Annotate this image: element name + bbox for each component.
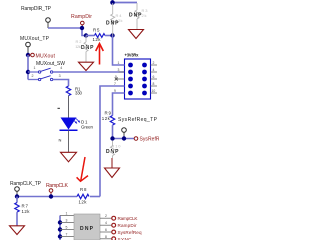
junction node RampCLK TP — [15, 194, 19, 198]
junction node box pin7 — [58, 234, 62, 238]
wire RampDir to pin1 — [113, 36, 125, 66]
resistor R7 — [15, 197, 19, 226]
LED D1 — [60, 118, 81, 131]
wire RampCLK — [17, 196, 77, 198]
svg-text:R9: R9 — [105, 111, 112, 116]
svg-text:SysRefR: SysRefR — [140, 137, 160, 143]
connector J1 pads right column — [142, 63, 147, 96]
switch SW1 pole 1 — [28, 68, 53, 73]
svg-text:2: 2 — [105, 214, 107, 218]
red arrow annotation down — [77, 157, 88, 181]
svg-text:R10: R10 — [112, 144, 122, 149]
svg-text:DNP: DNP — [80, 226, 94, 232]
ground GND3 under LED — [61, 152, 77, 162]
resistor R5 — [86, 34, 113, 38]
resistor R8 — [77, 194, 100, 198]
svg-text:MUXout: MUXout — [36, 54, 56, 60]
junction node R9 bottom — [110, 136, 114, 140]
svg-text:2: 2 — [153, 61, 155, 65]
junction node box pin5 — [58, 227, 62, 231]
power arrow annotation up — [96, 44, 104, 65]
resistor R2 DNP (grayed) — [84, 36, 88, 63]
svg-text:12k: 12k — [79, 200, 88, 205]
svg-text:10: 10 — [152, 89, 156, 93]
svg-text:3: 3 — [118, 68, 120, 72]
svg-text:DNP: DNP — [129, 13, 142, 19]
ground GND4 — [105, 168, 120, 178]
wire switch left vertical — [27, 55, 29, 80]
svg-text:RampCLK: RampCLK — [118, 216, 139, 221]
svg-text:DNP: DNP — [106, 21, 119, 27]
port circle RampDir — [81, 21, 85, 27]
resistor R9 — [110, 116, 114, 139]
svg-text:4: 4 — [153, 68, 155, 72]
DNP box component — [74, 214, 100, 240]
svg-text:N: N — [59, 138, 62, 143]
switch SW1 pole 2 — [28, 76, 53, 81]
svg-text:DNP: DNP — [106, 149, 119, 155]
pin stubs left of DNP box — [60, 216, 74, 237]
wire DNP header left vertical — [59, 216, 61, 240]
test point TP RampDIR — [46, 18, 51, 28]
svg-text:8: 8 — [153, 82, 155, 86]
port circle MUXout — [28, 53, 34, 57]
svg-text:3: 3 — [59, 74, 61, 78]
junction node switch pin1 — [26, 70, 30, 74]
resistor R10 DNP (grayed) — [111, 141, 115, 159]
wire switch pin3 to R1 — [53, 80, 69, 87]
svg-text:1: 1 — [34, 66, 36, 70]
svg-text:MUXout_TP: MUXout_TP — [20, 36, 50, 42]
svg-text:12k: 12k — [93, 37, 102, 42]
no connect circle pin2 — [112, 216, 116, 220]
svg-text:RampDir: RampDir — [118, 223, 137, 228]
junction node RampDir — [80, 26, 84, 30]
test point TP MUXout — [26, 42, 31, 55]
svg-text:5: 5 — [115, 75, 117, 79]
svg-text:Green: Green — [81, 125, 94, 130]
wire RampDIR_TP to RampDir node — [48, 28, 86, 36]
svg-text:6: 6 — [105, 228, 107, 232]
ground GND2 mid — [79, 62, 94, 70]
no connect cross pin5 — [115, 78, 118, 81]
anode mark — [58, 108, 60, 109]
svg-text:12k: 12k — [75, 44, 81, 49]
wire top horizontal — [113, 2, 138, 4]
port circle SysRefReq — [134, 137, 138, 141]
junction node R5 right — [110, 33, 114, 37]
svg-text:R7: R7 — [22, 204, 29, 209]
svg-text:12k: 12k — [22, 209, 31, 214]
junction node MUXout — [26, 53, 30, 57]
svg-text:R8: R8 — [80, 187, 87, 192]
svg-text:12k: 12k — [102, 116, 111, 121]
wire pin9 to R9 — [113, 93, 125, 116]
svg-text:SysRefReq: SysRefReq — [118, 230, 142, 235]
no connect circle pin6 — [112, 230, 116, 234]
wire MUXout_SW to header pin3 — [53, 71, 125, 73]
pin stubs left 1,3,5,7,9 — [116, 65, 125, 93]
svg-text:1: 1 — [66, 212, 68, 216]
no connect circle pin4 — [112, 223, 116, 227]
pin stubs right of DNP box — [100, 218, 112, 239]
svg-text:2k: 2k — [142, 13, 147, 18]
svg-text:2: 2 — [32, 74, 34, 78]
svg-text:RampDir: RampDir — [71, 14, 92, 20]
connector J1 body — [125, 59, 151, 99]
junction node RampCLK port — [49, 194, 53, 198]
svg-text:RampDIR_TP: RampDIR_TP — [21, 6, 52, 12]
svg-text:6: 6 — [153, 75, 155, 79]
wire top net stub — [112, 0, 114, 3]
resistor R3 DNP (grayed) — [135, 3, 139, 30]
svg-text:330: 330 — [75, 91, 83, 96]
svg-text:8: 8 — [105, 235, 107, 239]
ground GND1 top right — [129, 30, 144, 39]
pin stubs right 2,4,6,8,10 — [151, 65, 158, 93]
ground GND5 bottom left — [10, 226, 25, 235]
svg-text:RampCLK_TP: RampCLK_TP — [10, 181, 42, 187]
junction node SysRefReq TP — [122, 136, 126, 140]
test point TP RampCLK — [15, 187, 20, 197]
resistor R1 — [66, 86, 70, 118]
svg-text:4: 4 — [105, 221, 107, 225]
svg-text:4: 4 — [60, 66, 62, 70]
svg-text:RampCLK: RampCLK — [46, 183, 69, 189]
resistor R4 DNP (grayed) — [111, 3, 115, 36]
svg-text:3: 3 — [66, 219, 68, 223]
ground GND4 stem — [111, 158, 113, 168]
wire SysRefReq — [113, 138, 135, 140]
junction node top — [110, 0, 115, 5]
svg-text:7: 7 — [66, 233, 68, 237]
test point TP SysRefReq — [122, 128, 127, 139]
no connect circle pin8 — [112, 237, 116, 240]
port circle RampCLK — [49, 189, 53, 197]
connector J1 pads left column — [128, 63, 133, 96]
wire pin7 down to RampCLK — [100, 86, 125, 197]
svg-text:SysRefReq_TP: SysRefReq_TP — [118, 117, 158, 123]
svg-text:5: 5 — [66, 226, 68, 230]
wire LED to GND3 — [68, 130, 70, 152]
svg-text:+3V3Rx: +3V3Rx — [125, 53, 140, 58]
junction node box pin3 — [58, 220, 62, 224]
junction node R5 left — [84, 33, 88, 37]
svg-text:R5: R5 — [93, 28, 100, 33]
